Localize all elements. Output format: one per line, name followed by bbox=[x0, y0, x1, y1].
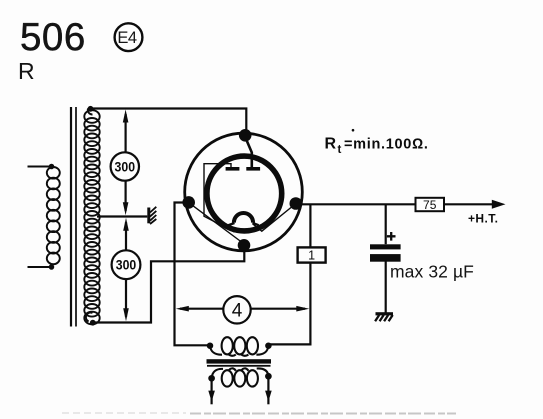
pin right (filament) bbox=[290, 197, 303, 210]
transformer T1 core bbox=[70, 107, 72, 327]
dimension line 4 bbox=[176, 306, 309, 312]
wire right pin to +H.T. bbox=[296, 203, 493, 205]
svg-text:300: 300 bbox=[116, 257, 137, 273]
dimension line 300 (upper) bbox=[123, 110, 129, 216]
wire right pin branch to resistor 1 bbox=[309, 204, 311, 247]
resistor 1 bbox=[298, 247, 326, 262]
chassis ground bbox=[375, 312, 393, 321]
pin left (filament) bbox=[182, 196, 195, 209]
tube base circle bbox=[207, 156, 282, 231]
dimension line 300 (lower) bbox=[123, 218, 129, 321]
wire secondary bottom to anode 2 bbox=[91, 248, 244, 323]
output transformer T2 secondary coil bbox=[209, 368, 270, 386]
resistor 75 bbox=[416, 198, 445, 212]
transformer T1 secondary coil bbox=[84, 107, 99, 325]
svg-text:506: 506 bbox=[20, 16, 86, 59]
filament lead to right pin bbox=[253, 204, 296, 231]
capacitor C1 polarity + bbox=[387, 232, 396, 241]
wire capacitor to ground bbox=[385, 261, 387, 312]
transformer T1 primary coil bbox=[28, 165, 60, 269]
wire resistor 1 to output transformer bbox=[268, 263, 311, 345]
capacitor C1 max 32 uF bbox=[370, 244, 401, 261]
svg-text:4: 4 bbox=[232, 301, 243, 322]
filament lead to left pin bbox=[189, 203, 244, 244]
svg-text:75: 75 bbox=[423, 198, 437, 212]
svg-text:=min.100Ω.: =min.100Ω. bbox=[344, 137, 429, 153]
svg-text:E4: E4 bbox=[117, 29, 137, 47]
output terminal right bbox=[267, 376, 269, 404]
rectifier tube V1 envelope bbox=[185, 133, 303, 251]
label 300 (upper) bbox=[111, 152, 139, 180]
svg-text:R: R bbox=[325, 136, 337, 153]
anode a2 plate bbox=[246, 167, 260, 171]
svg-text:t: t bbox=[338, 144, 342, 156]
svg-text:1: 1 bbox=[308, 249, 315, 263]
output terminal left bbox=[211, 378, 213, 404]
wire center tap to chassis bbox=[97, 215, 147, 217]
anode a1 plate bbox=[226, 167, 240, 171]
arrow +H.T. bbox=[492, 200, 506, 209]
svg-text:300: 300 bbox=[115, 159, 136, 175]
scan artifact line bbox=[62, 412, 186, 414]
svg-text:R: R bbox=[18, 58, 35, 84]
svg-text:+H.T.: +H.T. bbox=[468, 212, 498, 226]
filament bbox=[228, 213, 258, 225]
label Rt = min. 100 ohm bbox=[325, 129, 429, 156]
anode a1 routed lead to bottom pin bbox=[204, 164, 234, 232]
label 300 (lower) bbox=[112, 250, 141, 279]
wire secondary top to anode 1 bbox=[90, 109, 246, 133]
pin top (anode 2) bbox=[239, 129, 252, 142]
output transformer T2 core bbox=[207, 359, 272, 363]
badge E4 bbox=[115, 23, 143, 51]
wire to capacitor bbox=[385, 204, 387, 244]
output transformer T2 primary coil bbox=[208, 337, 271, 356]
pin bottom (anode 1) bbox=[238, 239, 251, 252]
wire left pin to output transformer bbox=[175, 203, 210, 346]
anode a2 lead to top pin bbox=[246, 138, 252, 169]
label 4 bbox=[223, 296, 250, 323]
chassis connection (center tap) bbox=[147, 207, 156, 224]
svg-text:max 32 µF: max 32 µF bbox=[390, 262, 474, 282]
